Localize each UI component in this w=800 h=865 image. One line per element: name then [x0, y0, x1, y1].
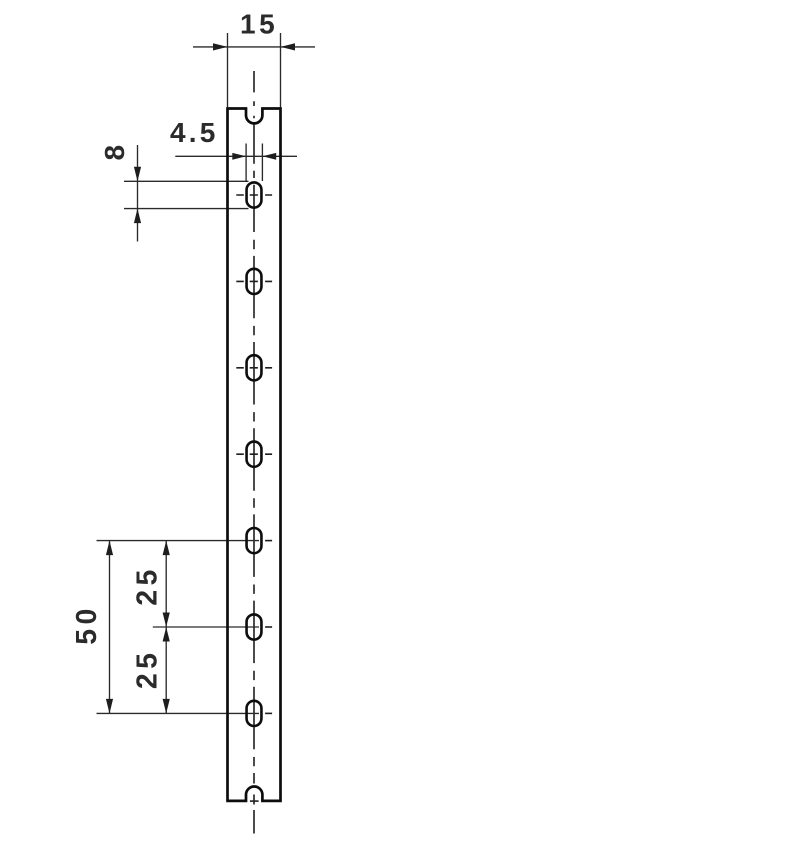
- dimension 15: dimension line: [193, 46, 315, 48]
- dimension 8: extension line top: [124, 180, 249, 182]
- slot 4: [247, 442, 262, 467]
- slot 6: [247, 614, 262, 639]
- slot 4 crosshair: [236, 453, 272, 455]
- dimension 25 lower: dimension line: [165, 627, 167, 713]
- svg-text:50: 50: [71, 604, 103, 645]
- strip outline with top and bottom half-slot notches: [228, 109, 281, 801]
- bottom notch crosshair tick: [250, 800, 259, 802]
- slot 3 crosshair: [236, 367, 272, 369]
- dimension 4.5: right arrowhead: [262, 153, 276, 160]
- centerline vertical dash-dot: [253, 71, 255, 834]
- dimension 25 lower: top arrowhead: [163, 627, 170, 642]
- dimension 25 upper: top arrowhead: [163, 541, 170, 556]
- dimension 50: top arrowhead: [106, 541, 113, 556]
- dimension 8: bottom arrowhead: [134, 209, 141, 224]
- svg-text:25: 25: [131, 649, 163, 690]
- dimension 4.5: dimension line: [175, 155, 297, 157]
- slot 7 crosshair right dash: [265, 712, 272, 714]
- slot 1: [247, 182, 262, 207]
- dimension 25 lower: bottom arrowhead: [163, 699, 170, 714]
- svg-text:15: 15: [240, 8, 278, 39]
- dimension 4.5: extension line right: [261, 144, 263, 182]
- dimension 25 upper: bottom arrowhead: [163, 613, 170, 628]
- slot 7: [247, 701, 262, 726]
- slot 3: [247, 355, 262, 380]
- dimension 50: bottom arrowhead: [106, 699, 113, 714]
- dimension 15: left arrowhead: [213, 43, 228, 50]
- slot 1 crosshair: [236, 194, 272, 196]
- dimension 15: right arrowhead: [281, 43, 296, 50]
- svg-text:8: 8: [99, 145, 130, 161]
- dimension 4.5: left arrowhead: [232, 153, 246, 160]
- dimension 4.5: extension line left: [245, 144, 247, 182]
- svg-text:25: 25: [131, 565, 163, 606]
- dimension 25 upper: dimension line: [165, 541, 167, 627]
- slot 6 crosshair right dash: [265, 626, 272, 628]
- lower dims: extension line at slot7 center: [97, 712, 260, 714]
- dimension 8: extension line bottom: [124, 208, 249, 210]
- dimension 8: top arrowhead: [134, 167, 141, 182]
- svg-text:4.5: 4.5: [170, 117, 219, 148]
- dimension 8: dimension line: [137, 145, 139, 242]
- lower dims: extension line at slot5 center: [97, 540, 260, 542]
- dimension 50: dimension line: [109, 541, 111, 714]
- slot 5 crosshair right dash: [265, 540, 272, 542]
- slot 2: [247, 269, 262, 294]
- dimension 15: extension line left: [227, 33, 229, 107]
- lower dims: extension line at slot6 center: [153, 626, 259, 628]
- slot 5: [247, 528, 262, 553]
- dimension 15: extension line right: [280, 33, 282, 107]
- slot 2 crosshair: [236, 280, 272, 282]
